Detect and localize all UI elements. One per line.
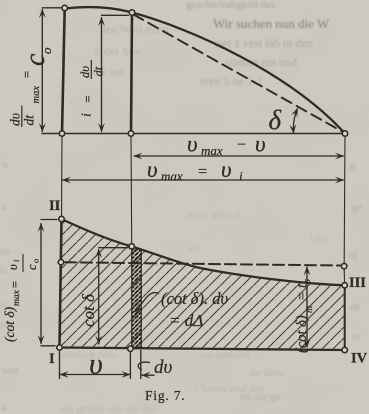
svg-text:n est ganz d: n est ganz d <box>188 209 241 221</box>
svg-text:υ: υ <box>255 132 266 157</box>
dashed chord line <box>134 15 345 133</box>
node top-chart base right <box>342 131 347 136</box>
v dimension arrow <box>60 350 141 379</box>
node IV <box>342 347 347 352</box>
svg-text:n: n <box>2 159 8 171</box>
svg-text:t die: t die <box>310 233 329 245</box>
node at curve start t0 <box>62 5 67 10</box>
svg-text:Wir suchen nun die W: Wir suchen nun die W <box>213 16 330 31</box>
node on curve at strip <box>129 10 134 15</box>
right edge III-IV <box>344 285 346 350</box>
extension line right (down to III) <box>343 134 346 263</box>
svg-text:c: c <box>25 264 39 270</box>
node I <box>57 345 62 350</box>
svg-text:υ: υ <box>89 348 103 381</box>
extension line left (t0 down to II) <box>61 134 64 220</box>
thick vertical line at strip <box>131 13 132 134</box>
svg-text:a: a <box>2 401 7 413</box>
svg-text:υ: υ <box>147 157 158 182</box>
svg-text:wid: wid <box>2 365 19 377</box>
label (cot d)max = vi/c0 (rotated) <box>2 254 41 342</box>
svg-text:tte: tte <box>0 246 11 258</box>
svg-text:=: = <box>19 70 34 79</box>
svg-text:−: − <box>236 137 247 154</box>
svg-text:Fig. 7.: Fig. 7. <box>145 388 185 403</box>
svg-text:dυ: dυ <box>7 113 22 126</box>
svg-text:I: I <box>49 351 55 367</box>
svg-text:max: max <box>31 86 42 104</box>
arrow vmax - v <box>134 155 344 157</box>
svg-text:geschwindigkeit des: geschwindigkeit des <box>186 0 276 11</box>
svg-text:o: o <box>39 47 54 54</box>
svg-text:υ: υ <box>221 157 232 182</box>
node at dashed mean line left <box>58 260 63 265</box>
dv arrow <box>138 362 154 375</box>
svg-text:=: = <box>197 164 208 181</box>
arrow (cot d)max <box>41 220 57 346</box>
svg-text:(cot δ): (cot δ) <box>294 315 310 353</box>
svg-text:de: de <box>350 301 361 313</box>
dashed mean line <box>65 262 340 265</box>
label dv/dt|max = c0 (rotated) <box>7 47 54 127</box>
svg-text:ein geschl zuh der dei: ein geschl zuh der dei <box>60 403 156 414</box>
svg-text:nd: nd <box>188 243 200 255</box>
baseline of top chart <box>42 133 345 135</box>
node bottom base at strip <box>128 346 133 351</box>
svg-text:dt: dt <box>91 66 105 76</box>
svg-text:=: = <box>80 95 95 104</box>
node II <box>59 216 64 221</box>
node top-chart base at strip <box>128 131 133 136</box>
thick vertical line at t0 <box>62 8 65 134</box>
svg-text:max: max <box>161 169 183 184</box>
dense dv strip <box>132 246 142 348</box>
svg-text:υ: υ <box>6 264 20 270</box>
svg-text:max: max <box>12 289 22 306</box>
svg-text:a: a <box>2 201 7 213</box>
svg-text:dυ: dυ <box>78 66 92 78</box>
node circles <box>57 5 348 352</box>
node on cot-curve at strip <box>129 244 134 249</box>
svg-text:dυ: dυ <box>154 357 173 378</box>
hatched area under cot curve <box>60 219 345 350</box>
svg-text:(cot δ). dυ: (cot δ). dυ <box>161 289 228 308</box>
svg-text:=: = <box>7 280 22 289</box>
arrow dv/dt max = c0 <box>42 8 61 132</box>
svg-text:ge: ge <box>352 201 363 213</box>
svg-text:III: III <box>349 275 366 291</box>
svg-text:max: max <box>201 143 223 158</box>
svg-text:i: i <box>239 169 243 184</box>
svg-text:IV: IV <box>351 351 368 367</box>
svg-text:nd die ge: nd die ge <box>240 391 280 403</box>
svg-text:υ: υ <box>187 132 198 157</box>
svg-text:er: er <box>352 331 361 343</box>
cot delta curve <box>62 219 345 285</box>
svg-text:= t: = t <box>295 283 310 301</box>
svg-text:= dΔ: = dΔ <box>169 311 203 330</box>
svg-text:sg: sg <box>348 249 358 261</box>
svg-text:(cot δ): (cot δ) <box>2 306 17 342</box>
svg-text:sser z vest lab in den: sser z vest lab in den <box>213 36 313 50</box>
label cot delta (rotated) <box>79 293 98 327</box>
svg-text:lt: lt <box>350 161 356 173</box>
svg-text:dt: dt <box>21 114 36 126</box>
label (cot d)m = ts (rotated) <box>294 279 315 353</box>
node top-chart base left <box>59 131 64 136</box>
bottom edge I-IV <box>60 348 345 351</box>
svg-text:δ: δ <box>269 105 282 135</box>
arrow (cot d)m = ts <box>306 267 308 347</box>
svg-text:o: o <box>31 259 41 263</box>
arrow vmax = vi <box>63 179 344 181</box>
label i = dv/dt (rotated) <box>78 60 106 117</box>
svg-text:s: s <box>302 279 313 283</box>
delta angle arc <box>293 109 297 134</box>
leader to (cot d) dv label <box>135 293 159 312</box>
svg-text:rze und stel: rze und stel <box>200 349 251 361</box>
node at dashed mean line right <box>341 263 346 268</box>
extension line strip (down to bottom curve) <box>130 134 133 247</box>
arrow i = dv/dt <box>102 15 129 131</box>
left edge II-I <box>60 219 62 348</box>
node III <box>342 283 347 288</box>
svg-text:II: II <box>49 198 61 214</box>
curve v(t) top chart <box>65 7 345 133</box>
svg-text:cot δ: cot δ <box>79 293 98 327</box>
svg-text:m: m <box>304 306 315 313</box>
svg-text:i: i <box>79 113 94 117</box>
svg-text:lie Bew: lie Bew <box>250 367 284 379</box>
arrow cot delta <box>99 248 128 344</box>
